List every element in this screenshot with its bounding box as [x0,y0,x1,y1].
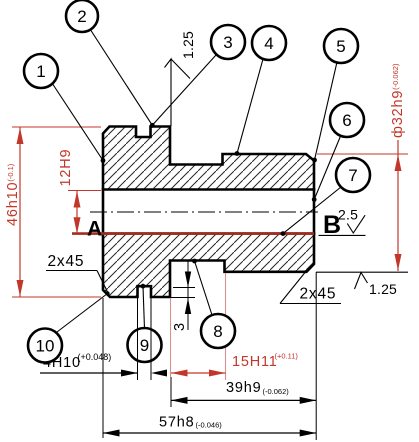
left outer edge through bore [102,188,105,235]
balloon 2 [66,0,98,32]
svg-text:1.25: 1.25 [369,281,397,297]
leader balloon 2 [90,29,152,125]
dimension 46h10 [5,127,101,297]
svg-text:2x45: 2x45 [48,253,85,270]
leader balloon 7 [283,187,341,234]
balloon 5 [324,29,358,63]
leader balloon 9 [143,286,145,329]
leader balloon 3 [152,55,216,125]
chamfer note 2x45 left [46,253,108,293]
svg-text:(+0.11): (+0.11) [275,352,299,361]
svg-text:39h9: 39h9 [226,380,261,396]
svg-text:4: 4 [264,34,273,53]
svg-text:1.25: 1.25 [180,31,196,59]
roughness 2.5 near B [319,207,366,236]
svg-text:2: 2 [77,7,86,26]
balloon 3 [211,25,245,59]
leader balloon 6 [314,135,341,200]
svg-text:12H9: 12H9 [58,149,74,187]
dimension 3 depth (black) [171,261,195,331]
right outer edge through bore [313,188,316,235]
leader balloon 8 [195,261,213,315]
svg-text:8: 8 [213,322,222,341]
part lower cross-section outline [103,234,314,298]
part upper cross-section outline [103,127,314,190]
svg-text:7: 7 [348,166,357,185]
balloon 9 [128,328,162,362]
balloon 4 [252,26,286,60]
leader balloon 5 [315,62,338,160]
balloon 7 [336,158,370,192]
svg-text:(-0.062): (-0.062) [263,387,290,396]
dimension dia 32h9 [317,63,408,271]
balloon 10 [28,329,62,363]
dimension 57h8 [103,298,316,438]
balloon 8 [201,314,235,348]
leader balloon 1 [52,83,103,161]
centerline [90,211,318,213]
balloon 1 [24,54,58,88]
svg-text:9: 9 [140,336,149,355]
svg-text:57h8: 57h8 [159,415,194,431]
dimension 15H11 (red) [171,273,299,407]
svg-text:A: A [87,218,102,241]
balloon 6 [330,103,364,137]
leader balloon 10 [57,294,108,333]
svg-text:2.5: 2.5 [338,207,358,223]
svg-text:3: 3 [223,33,232,52]
svg-text:(+0.048): (+0.048) [78,352,112,362]
leader balloon 4 [237,59,263,154]
dimension 4H10 (black) [40,298,167,380]
svg-text:6: 6 [342,111,351,130]
svg-text:5: 5 [336,37,345,56]
dimension 12H9 [58,149,101,234]
svg-text:10: 10 [36,337,55,356]
dimension 39h9 [171,272,316,440]
svg-text:3: 3 [172,322,188,331]
roughness 1.25 bottom right [316,272,408,297]
svg-text:1: 1 [36,62,45,81]
svg-text:2x45: 2x45 [300,286,337,303]
svg-text:15H11: 15H11 [232,354,278,370]
svg-text:(-0.046): (-0.046) [196,421,223,430]
roughness 1.25 top [165,31,197,126]
red datum line A-B [72,232,314,235]
chamfer note 2x45 right [280,270,341,304]
